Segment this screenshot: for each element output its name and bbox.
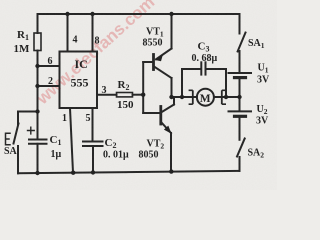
battery U2 [229,110,252,112]
battery U1 [229,72,252,74]
wire right rail lower [239,116,241,140]
transistor Q2 VT2 8050 [159,107,162,125]
wire right rail mid [239,78,241,111]
VT2 emitter arrow (points down-right) [164,126,172,134]
wire motor row [172,96,240,98]
node SA/C1 [35,109,39,113]
switch SA2 [237,139,245,157]
node pin1/bottom [71,171,75,175]
wire left vertical top [37,14,39,33]
wire VT1 base lead [143,61,152,63]
node C2/bottom [91,170,95,174]
wire right rail upper [239,14,241,34]
VT1 emitter arrow (points to base bar, down-left) [155,54,163,61]
motor M [189,89,226,106]
capacitor C2 [83,141,103,143]
node pin2 [35,84,39,88]
resistor R1 [34,33,41,51]
wire VT2 base lead [143,112,160,114]
node pin4/top [65,12,69,16]
resistor R2 [117,93,133,97]
wire pin3 [97,94,117,96]
op-amp U1: IC 555 box [60,52,98,109]
wire pin2 [38,85,60,87]
wire top rail [38,13,240,15]
capacitor C3 loop [181,69,183,97]
wire pin5 [92,108,94,141]
wire bottom rail [18,171,240,173]
transistor Q1 VT1 8550 [152,55,155,70]
node C3 right [224,95,228,99]
node pin8/top [90,12,94,16]
wire pin8 [92,14,94,52]
node R2/bases [141,93,145,97]
switch SA [17,146,19,173]
node VT2 emitter/bottom [169,169,173,173]
wire pin1 [70,108,73,173]
wire pin4 [67,14,69,52]
capacitor C1 [37,112,39,140]
wire pin6 [38,65,60,67]
node pin6 [35,64,39,68]
switch SA1 [238,33,246,52]
node motor/rail [237,95,241,99]
wire branch SA to C1 node [19,111,38,113]
wire R2 to bases [133,94,144,96]
node collectors/motor [169,95,173,99]
wire left vertical [37,51,39,112]
node C3 left [180,95,184,99]
node C1/bottom [35,171,39,175]
arrowheads [155,54,171,134]
node VT1 emitter/top [169,12,173,16]
